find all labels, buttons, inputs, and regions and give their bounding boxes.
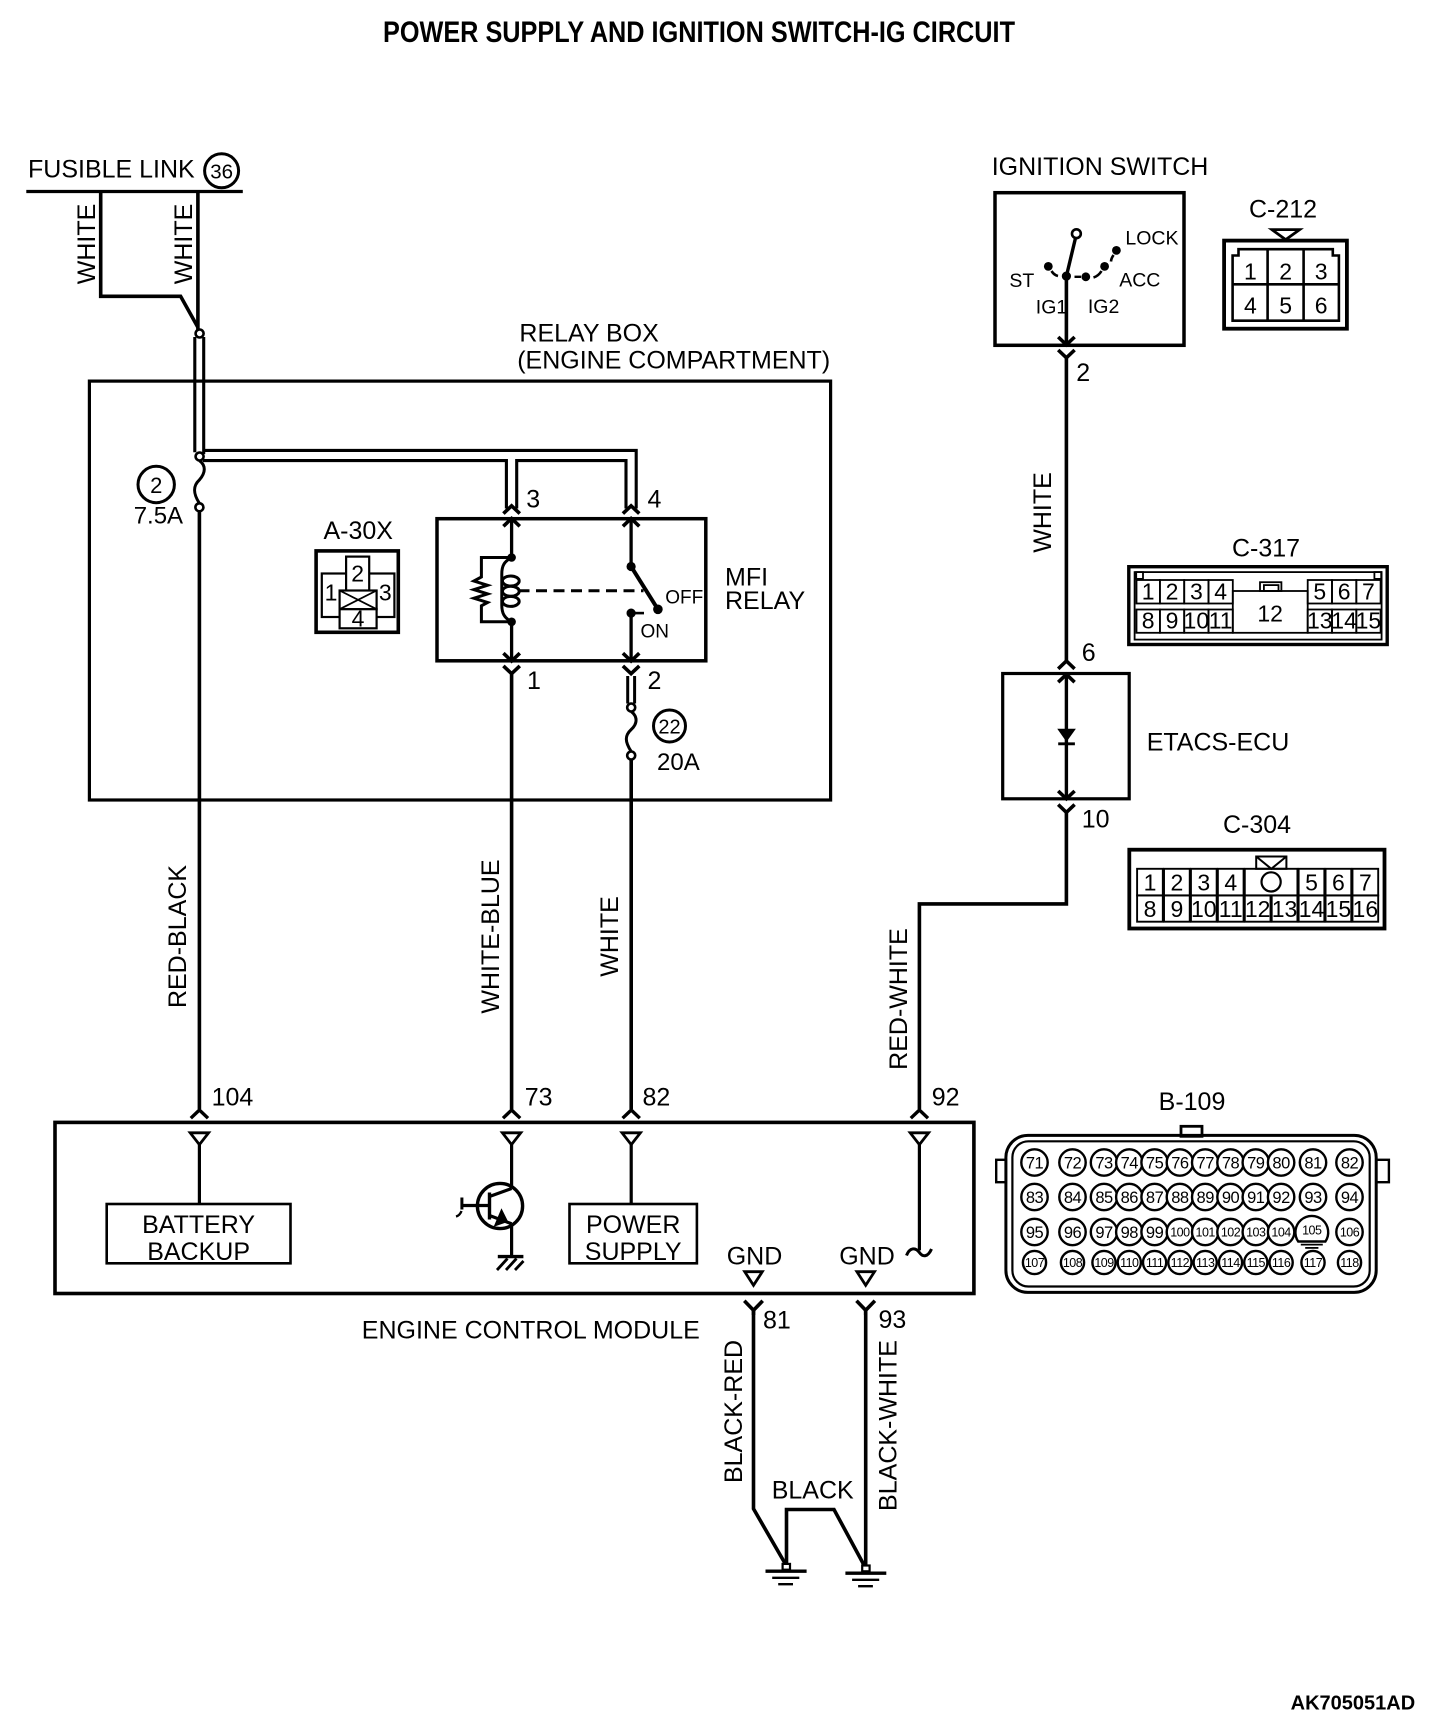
ignition switch pivot xyxy=(1062,272,1071,281)
svg-text:14: 14 xyxy=(1299,896,1325,922)
B-109 terminal 116 xyxy=(1270,1251,1293,1274)
svg-text:94: 94 xyxy=(1341,1189,1359,1207)
svg-text:12: 12 xyxy=(1245,896,1271,922)
fuse element 20A xyxy=(626,712,636,752)
svg-text:93: 93 xyxy=(1304,1189,1322,1207)
svg-text:8: 8 xyxy=(1142,608,1155,634)
internal ground (transistor) xyxy=(498,1255,524,1258)
switch pivot contact xyxy=(627,562,636,571)
connector C-212 body xyxy=(1224,241,1347,329)
svg-text:BLACK-RED: BLACK-RED xyxy=(720,1340,748,1483)
svg-text:3: 3 xyxy=(379,580,392,606)
svg-text:97: 97 xyxy=(1095,1224,1113,1242)
relay coil xyxy=(502,558,512,622)
wire WHITE (ignition to ETACS pin 6) xyxy=(1065,358,1069,661)
svg-text:(ENGINE COMPARTMENT): (ENGINE COMPARTMENT) xyxy=(517,346,830,374)
svg-text:OFF: OFF xyxy=(665,588,703,609)
svg-text:103: 103 xyxy=(1246,1226,1266,1240)
svg-text:108: 108 xyxy=(1063,1256,1083,1270)
transistor (PNP driver) xyxy=(477,1183,522,1228)
svg-text:1: 1 xyxy=(1144,870,1157,896)
B-109 terminal 94 xyxy=(1336,1184,1362,1210)
svg-text:2: 2 xyxy=(1076,359,1090,387)
svg-text:RELAY BOX: RELAY BOX xyxy=(519,319,659,347)
B-109 terminal 98 xyxy=(1116,1219,1142,1245)
dashed actuation link xyxy=(519,589,644,592)
svg-text:111: 111 xyxy=(1146,1256,1164,1270)
svg-text:7: 7 xyxy=(1362,578,1375,604)
C-317 cavity 10 xyxy=(1184,610,1208,633)
svg-text:118: 118 xyxy=(1340,1256,1359,1270)
C-317 cavity 3 xyxy=(1184,580,1208,604)
ETACS-ECU box xyxy=(1003,674,1129,799)
svg-text:73: 73 xyxy=(1095,1154,1113,1172)
svg-text:11: 11 xyxy=(1209,608,1233,634)
svg-text:80: 80 xyxy=(1272,1154,1290,1172)
terminal arrows relay pin 4 xyxy=(623,506,639,514)
svg-text:117: 117 xyxy=(1304,1256,1323,1270)
C-317 cavity 8 xyxy=(1137,610,1160,633)
connector A-30X outline xyxy=(316,551,398,632)
svg-text:71: 71 xyxy=(1026,1154,1044,1172)
C-317 cavity 14 xyxy=(1332,610,1356,633)
svg-text:88: 88 xyxy=(1171,1189,1189,1207)
contact IG2 xyxy=(1081,272,1090,281)
svg-text:76: 76 xyxy=(1171,1154,1189,1172)
svg-text:RED-WHITE: RED-WHITE xyxy=(885,928,913,1070)
wire: fusible-link double line down to relay box junction xyxy=(193,337,196,452)
B-109 terminal 77 xyxy=(1192,1149,1218,1175)
contact ST xyxy=(1044,262,1053,271)
terminal arrows relay pin 1 xyxy=(503,653,519,661)
svg-text:5: 5 xyxy=(1305,870,1318,896)
svg-text:2: 2 xyxy=(351,561,364,587)
C-212 cell block xyxy=(1233,249,1339,321)
wire: left WHITE feed from fusible link xyxy=(101,193,198,328)
svg-text:104: 104 xyxy=(1271,1226,1291,1240)
C-304 cavity 5 xyxy=(1299,869,1325,896)
svg-text:106: 106 xyxy=(1340,1226,1360,1240)
svg-text:GND: GND xyxy=(839,1243,895,1271)
svg-text:10: 10 xyxy=(1191,896,1217,922)
svg-text:13: 13 xyxy=(1307,608,1333,634)
svg-text:86: 86 xyxy=(1121,1189,1139,1207)
svg-text:82: 82 xyxy=(643,1084,671,1112)
svg-text:92: 92 xyxy=(1272,1189,1290,1207)
node: coil bottom junction xyxy=(507,618,516,627)
C-317 index tabs xyxy=(1136,572,1143,579)
B-109 terminal 95 xyxy=(1021,1219,1047,1245)
svg-text:3: 3 xyxy=(526,486,540,514)
connector C-317 body xyxy=(1129,567,1387,645)
A-30X pin 4 cavity xyxy=(340,609,377,628)
svg-text:8: 8 xyxy=(1144,896,1157,922)
B-109 terminal 84 xyxy=(1059,1184,1085,1210)
svg-text:4: 4 xyxy=(648,486,662,514)
svg-text:4: 4 xyxy=(1224,870,1237,896)
svg-text:85: 85 xyxy=(1095,1189,1113,1207)
svg-text:9: 9 xyxy=(1166,608,1179,634)
svg-text:POWER SUPPLY AND IGNITION SWIT: POWER SUPPLY AND IGNITION SWITCH-IG CIRC… xyxy=(383,16,1015,49)
svg-text:1: 1 xyxy=(1244,259,1257,285)
C-304 cavity 11 xyxy=(1218,895,1244,921)
svg-text:92: 92 xyxy=(932,1084,960,1112)
svg-text:C-212: C-212 xyxy=(1249,196,1317,224)
wire BLACK-WHITE (pin 93 to body ground) xyxy=(864,1310,868,1566)
svg-text:BLACK-WHITE: BLACK-WHITE xyxy=(875,1340,903,1511)
C-317 cavity 6 xyxy=(1332,580,1356,604)
svg-text:114: 114 xyxy=(1221,1256,1240,1270)
svg-text:72: 72 xyxy=(1064,1154,1082,1172)
body ground 1 xyxy=(783,1564,790,1570)
C-317 cavity 11 xyxy=(1209,610,1233,633)
svg-text:RED-BLACK: RED-BLACK xyxy=(164,865,192,1008)
C-304 cavity 7 xyxy=(1352,869,1378,896)
svg-text:74: 74 xyxy=(1121,1154,1139,1172)
C-317 cavity 4 xyxy=(1209,580,1233,604)
B-109 terminal 111 xyxy=(1143,1251,1166,1274)
B-109 terminal 96 xyxy=(1059,1219,1085,1245)
svg-text:115: 115 xyxy=(1247,1256,1266,1270)
B-109 terminal 85 xyxy=(1091,1184,1117,1210)
C-304 cavity 1 xyxy=(1137,869,1163,896)
svg-text:105: 105 xyxy=(1302,1224,1322,1238)
svg-text:95: 95 xyxy=(1026,1224,1044,1242)
fusible link bus bar xyxy=(26,190,243,193)
svg-text:116: 116 xyxy=(1272,1256,1291,1270)
B-109 terminal 101 xyxy=(1192,1219,1218,1245)
svg-text:5: 5 xyxy=(1279,293,1292,319)
svg-text:6: 6 xyxy=(1332,870,1345,896)
svg-text:81: 81 xyxy=(763,1307,791,1335)
C-317 cavity 15 xyxy=(1356,610,1380,633)
svg-text:98: 98 xyxy=(1121,1224,1139,1242)
B-109 terminal 99 xyxy=(1141,1219,1167,1245)
B-109 terminal 81 xyxy=(1300,1149,1326,1175)
wire WHITE-BLUE (relay pin 1 to ECM pin 73) xyxy=(510,674,514,1109)
svg-text:96: 96 xyxy=(1064,1224,1082,1242)
svg-text:3: 3 xyxy=(1315,259,1328,285)
wire inside ETACS xyxy=(1065,675,1068,798)
node: coil top junction xyxy=(507,553,516,562)
svg-text:IG1: IG1 xyxy=(1036,297,1067,319)
node: junction circle above fusible-link double wire xyxy=(196,330,204,338)
B-109 terminal 97 xyxy=(1091,1219,1117,1245)
svg-text:A-30X: A-30X xyxy=(324,517,394,545)
B-109 terminal 110 xyxy=(1118,1251,1141,1274)
svg-text:78: 78 xyxy=(1222,1154,1240,1172)
A-30X keyway box with X xyxy=(340,591,377,610)
B-109 terminal 115 xyxy=(1244,1251,1267,1274)
B-109 terminal 104 xyxy=(1268,1219,1294,1245)
B-109 terminal 83 xyxy=(1021,1184,1047,1210)
C-304 cavity 15 xyxy=(1326,895,1352,921)
svg-text:16: 16 xyxy=(1353,896,1379,922)
ECM pin 104 entry xyxy=(191,1110,208,1118)
svg-text:2: 2 xyxy=(150,473,162,498)
svg-text:ST: ST xyxy=(1009,270,1034,292)
B-109 terminal 73 xyxy=(1091,1149,1117,1175)
B-109 terminal 113 xyxy=(1194,1251,1217,1274)
B-109 terminal 108 xyxy=(1061,1251,1084,1274)
svg-text:107: 107 xyxy=(1025,1256,1045,1270)
C-304 envelope key xyxy=(1256,857,1286,869)
wire RED-BLACK (fuse 7.5A to ECM pin 104) xyxy=(198,511,202,1109)
svg-text:3: 3 xyxy=(1190,578,1203,604)
svg-text:C-304: C-304 xyxy=(1223,811,1291,839)
B-109 terminal 76 xyxy=(1167,1149,1193,1175)
B-109 terminal 74 xyxy=(1116,1149,1142,1175)
C-304 cavity 9 xyxy=(1164,895,1190,921)
B-109 terminal 80 xyxy=(1268,1149,1294,1175)
B-109 terminal 103 xyxy=(1243,1219,1269,1245)
C-317 cavity 2 xyxy=(1160,580,1184,604)
B-109 terminal 79 xyxy=(1243,1149,1269,1175)
svg-text:WHITE: WHITE xyxy=(596,896,624,977)
svg-text:13: 13 xyxy=(1272,896,1298,922)
svg-text:101: 101 xyxy=(1196,1226,1216,1240)
svg-text:110: 110 xyxy=(1120,1256,1139,1270)
B-109 terminal 112 xyxy=(1168,1251,1191,1274)
svg-text:ENGINE CONTROL MODULE: ENGINE CONTROL MODULE xyxy=(362,1317,700,1345)
B-109 terminal 89 xyxy=(1192,1184,1218,1210)
terminal arrows relay pin 3 xyxy=(503,506,519,514)
svg-text:C-317: C-317 xyxy=(1232,535,1300,563)
svg-text:10: 10 xyxy=(1082,806,1110,834)
svg-text:87: 87 xyxy=(1146,1189,1164,1207)
MFI relay box xyxy=(437,519,706,661)
B-109 side tabs xyxy=(996,1160,1006,1182)
wire: coil bottom to pin 1 xyxy=(510,622,513,660)
svg-text:91: 91 xyxy=(1247,1189,1265,1207)
svg-text:73: 73 xyxy=(525,1084,553,1112)
battery backup block xyxy=(107,1204,291,1263)
svg-text:100: 100 xyxy=(1170,1226,1190,1240)
svg-text:ACC: ACC xyxy=(1119,270,1160,292)
svg-text:82: 82 xyxy=(1341,1154,1359,1172)
svg-text:ON: ON xyxy=(641,622,670,643)
B-109 terminal 93 xyxy=(1300,1184,1326,1210)
B-109 terminal 107 xyxy=(1023,1251,1046,1274)
switch blade (to OFF position) xyxy=(631,567,657,609)
svg-text:102: 102 xyxy=(1221,1226,1241,1240)
svg-text:11: 11 xyxy=(1219,896,1243,922)
wire: bus A from junction to relay pin 4 xyxy=(203,450,636,508)
svg-text:WHITE: WHITE xyxy=(73,204,101,285)
power supply block xyxy=(570,1204,697,1263)
svg-text:WHITE: WHITE xyxy=(170,204,198,285)
relay coil branch: wire from pin 3 xyxy=(510,520,513,558)
svg-text:1: 1 xyxy=(1142,578,1155,604)
svg-text:1: 1 xyxy=(325,580,338,606)
svg-text:FUSIBLE LINK: FUSIBLE LINK xyxy=(28,156,195,184)
svg-text:84: 84 xyxy=(1064,1189,1082,1207)
wire WHITE (20A fuse to ECM pin 82) xyxy=(629,760,633,1110)
terminal arrows ETACS pin 6 xyxy=(1058,661,1074,669)
B-109 top tab xyxy=(1181,1126,1202,1136)
wire pin 82 to power supply xyxy=(630,1145,633,1204)
svg-text:5: 5 xyxy=(1313,578,1326,604)
svg-text:113: 113 xyxy=(1196,1256,1215,1270)
svg-text:4: 4 xyxy=(352,606,365,632)
svg-text:12: 12 xyxy=(1257,601,1283,627)
svg-text:WHITE: WHITE xyxy=(1029,472,1057,553)
svg-text:BLACK: BLACK xyxy=(772,1477,854,1505)
fuse 2 circled label xyxy=(138,466,174,502)
svg-text:RELAY: RELAY xyxy=(725,587,805,615)
wire BLACK-RED (pin 81 to body ground) xyxy=(754,1310,786,1564)
B-109 terminal 117 xyxy=(1301,1251,1324,1274)
svg-text:81: 81 xyxy=(1304,1154,1322,1172)
B-109 terminal 90 xyxy=(1217,1184,1243,1210)
svg-text:112: 112 xyxy=(1171,1256,1190,1270)
C-304 cavity 3 xyxy=(1191,869,1217,896)
C-317 cavity 9 xyxy=(1160,610,1184,633)
wire pin 73 to transistor xyxy=(510,1145,513,1189)
svg-text:15: 15 xyxy=(1326,896,1352,922)
C-304 key cavity xyxy=(1245,869,1298,896)
node: junction circle at bus split xyxy=(196,453,204,461)
svg-text:10: 10 xyxy=(1184,608,1210,634)
B-109 body xyxy=(1006,1135,1376,1292)
C-304 cavity 4 xyxy=(1218,869,1244,896)
B-109 terminal 88 xyxy=(1167,1184,1193,1210)
svg-text:9: 9 xyxy=(1170,896,1183,922)
fuse 22 circled label xyxy=(654,710,686,742)
svg-text:2: 2 xyxy=(1170,870,1183,896)
ECM pin 92 entry xyxy=(911,1110,928,1118)
svg-text:89: 89 xyxy=(1197,1189,1215,1207)
svg-text:LOCK: LOCK xyxy=(1125,228,1178,250)
contact LOCK xyxy=(1112,246,1121,255)
svg-text:99: 99 xyxy=(1146,1224,1164,1242)
B-109 terminal 100 xyxy=(1167,1219,1193,1245)
C-304 cavity 12 xyxy=(1245,895,1271,921)
svg-text:109: 109 xyxy=(1094,1256,1114,1270)
A-30X horizontal cavity (pins 1,3) xyxy=(322,574,395,618)
B-109 terminal 75 xyxy=(1141,1149,1167,1175)
ECM pin 81 exit xyxy=(744,1301,762,1311)
terminal arrows ETACS pin 10 xyxy=(1058,791,1074,799)
wire: ON contact to pin 2 xyxy=(629,613,632,660)
wire RED-WHITE (ETACS pin 10 to ECM pin 92) xyxy=(919,812,1066,1109)
B-109 terminal 72 xyxy=(1059,1149,1085,1175)
fusible link number 36 (circled) xyxy=(205,154,239,188)
svg-text:AK705051AD: AK705051AD xyxy=(1291,1693,1416,1715)
engine control module box xyxy=(55,1122,974,1293)
contact ACC xyxy=(1100,262,1109,271)
A-30X vertical cavity (pin 2) xyxy=(346,557,369,592)
wire pin 104 to battery backup xyxy=(198,1145,201,1204)
svg-text:2: 2 xyxy=(1279,259,1292,285)
C-304 cavity 16 xyxy=(1352,895,1378,921)
C-317 cavity 1 xyxy=(1137,580,1160,604)
ECM pin 93 exit xyxy=(857,1301,875,1311)
svg-text:ETACS-ECU: ETACS-ECU xyxy=(1147,729,1290,757)
C-317 cavity 13 xyxy=(1308,610,1332,633)
terminal arrows ignition pin 2 xyxy=(1058,337,1074,345)
svg-text:79: 79 xyxy=(1247,1154,1265,1172)
B-109 terminal 114 xyxy=(1219,1251,1242,1274)
B-109 terminal 118 xyxy=(1338,1251,1361,1274)
svg-text:75: 75 xyxy=(1146,1154,1164,1172)
svg-text:3: 3 xyxy=(1197,870,1210,896)
svg-text:B-109: B-109 xyxy=(1159,1088,1226,1116)
B-109 terminal 91 xyxy=(1243,1184,1269,1210)
wire: right WHITE feed from fusible link xyxy=(196,193,200,330)
ignition switch rotor tip xyxy=(1072,229,1081,238)
svg-text:20A: 20A xyxy=(657,749,700,776)
C-304 cavity 14 xyxy=(1299,895,1325,921)
B-109 terminal 86 xyxy=(1116,1184,1142,1210)
wire pin 92 stub with coil terminator xyxy=(918,1145,921,1251)
C-317 center cavity 12 xyxy=(1233,591,1308,633)
svg-text:6: 6 xyxy=(1338,578,1351,604)
C-304 cavity 10 xyxy=(1191,895,1217,921)
C-317 cavity 7 xyxy=(1356,580,1380,604)
resistor (parallel with coil) xyxy=(474,558,512,622)
ignition switch box xyxy=(995,193,1184,346)
ECM pin 73 entry xyxy=(503,1110,520,1118)
wire: jumper pin 3 to pin 4 xyxy=(517,461,626,509)
B-109 terminal 102 xyxy=(1217,1219,1243,1245)
B-109 terminal 105 xyxy=(1295,1216,1328,1242)
svg-text:2: 2 xyxy=(648,667,662,695)
B-109 terminal 71 xyxy=(1021,1149,1047,1175)
svg-text:BACKUP: BACKUP xyxy=(147,1238,250,1266)
svg-text:4: 4 xyxy=(1214,578,1227,604)
connector C-304 body xyxy=(1129,850,1384,929)
svg-text:14: 14 xyxy=(1331,608,1357,634)
svg-text:7.5A: 7.5A xyxy=(134,503,183,530)
C-304 cavity 6 xyxy=(1326,869,1352,896)
svg-text:104: 104 xyxy=(212,1084,254,1112)
B-109 terminal 109 xyxy=(1092,1251,1115,1274)
svg-text:1: 1 xyxy=(527,667,541,695)
svg-text:90: 90 xyxy=(1222,1189,1240,1207)
body ground 2 xyxy=(862,1566,869,1572)
wire: relay pin 2 to 20A fuse xyxy=(626,676,629,704)
terminal arrows relay pin 2 xyxy=(623,653,639,661)
svg-text:15: 15 xyxy=(1356,608,1382,634)
svg-text:POWER: POWER xyxy=(586,1211,680,1239)
svg-text:77: 77 xyxy=(1197,1154,1215,1172)
svg-text:2: 2 xyxy=(1166,578,1179,604)
relay switch: wire from pin 4 xyxy=(629,520,632,567)
ON contact xyxy=(627,609,636,618)
svg-text:BATTERY: BATTERY xyxy=(142,1211,255,1239)
C-212 orientation triangle xyxy=(1272,230,1300,240)
ignition switch blade xyxy=(1066,238,1075,276)
B-109 terminal 78 xyxy=(1217,1149,1243,1175)
C-304 cavity 8 xyxy=(1137,895,1163,921)
svg-text:22: 22 xyxy=(658,717,680,739)
svg-text:36: 36 xyxy=(210,161,233,184)
B-109 terminal 82 xyxy=(1336,1149,1362,1175)
svg-text:SUPPLY: SUPPLY xyxy=(585,1238,682,1266)
svg-text:93: 93 xyxy=(879,1306,907,1334)
B-109 terminal 87 xyxy=(1141,1184,1167,1210)
C-304 cavity 13 xyxy=(1272,895,1298,921)
wire BLACK (ground strap) xyxy=(787,1510,865,1567)
wire transistor emitter to internal ground xyxy=(510,1224,513,1257)
svg-text:WHITE-BLUE: WHITE-BLUE xyxy=(477,859,505,1013)
B-109 terminal 92 xyxy=(1268,1184,1294,1210)
svg-text:GND: GND xyxy=(727,1243,783,1271)
C-317 cavity 5 xyxy=(1308,580,1332,604)
svg-text:IG2: IG2 xyxy=(1088,296,1119,318)
relay box (engine compartment) outline xyxy=(89,381,830,800)
